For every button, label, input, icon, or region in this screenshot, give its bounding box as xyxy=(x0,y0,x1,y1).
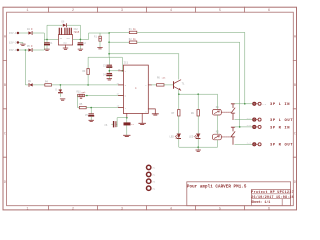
capacitor C7 xyxy=(124,122,135,126)
relay K2 switch xyxy=(231,127,235,144)
diode D5 xyxy=(27,45,33,52)
mounting hole H1 xyxy=(147,165,156,169)
resistor R6 xyxy=(157,77,167,87)
wire R OUT row xyxy=(235,143,253,145)
capacitor C2 xyxy=(78,40,86,49)
svg-text:B: B xyxy=(294,83,296,87)
frame row letters left xyxy=(4,35,6,185)
title block box xyxy=(187,182,291,206)
svg-text:2-3: 2-3 xyxy=(247,124,252,127)
ground IC right xyxy=(152,114,158,115)
ground regulator xyxy=(63,48,68,49)
svg-text:5: 5 xyxy=(219,206,221,210)
svg-text:15V-1: 15V-1 xyxy=(9,32,17,35)
resistor R2 xyxy=(129,38,137,44)
svg-text:D: D xyxy=(294,180,296,184)
pad 3P L OUT xyxy=(247,117,294,123)
wire relay column drop xyxy=(216,94,218,109)
wire R1 to right edge drop xyxy=(137,32,245,103)
LED LED3 xyxy=(189,134,200,139)
svg-text:50k: 50k xyxy=(82,91,87,94)
trimpot R11 xyxy=(77,91,87,99)
IC1 pin stubs left xyxy=(118,71,123,108)
frame column numbers bottom xyxy=(27,206,271,210)
LED LED2 xyxy=(170,134,181,139)
wire D5 to rectifier node xyxy=(33,39,45,50)
ground D10 xyxy=(60,99,65,100)
svg-text:4: 4 xyxy=(170,8,172,12)
svg-text:2-4: 2-4 xyxy=(247,142,252,145)
mounting hole H2 xyxy=(147,172,156,176)
wire regulator out to node xyxy=(73,39,82,41)
wire regulator gnd pin xyxy=(65,45,67,48)
fuse F1 xyxy=(94,33,101,47)
IC1 pin stubs bottom xyxy=(127,114,142,123)
wire row2 to R2 xyxy=(109,41,129,43)
relay K1 dashed link xyxy=(222,111,231,113)
ground IC bottom mid xyxy=(139,123,146,124)
wire IC right pin to gnd xyxy=(148,109,155,114)
wire AC sense drop xyxy=(25,50,28,85)
pad 3P R OUT xyxy=(247,142,294,148)
ground IC bottom left net xyxy=(124,135,130,136)
wire trimpot left down to R5 xyxy=(78,96,80,108)
svg-text:15V-3: 15V-3 xyxy=(9,49,17,52)
wire rail A down to Q1 collector xyxy=(178,54,180,79)
wire L OUT row xyxy=(235,119,253,121)
wire column2 drop xyxy=(197,94,199,109)
wire K1 to K2 xyxy=(216,115,218,134)
capacitor C5 xyxy=(85,108,93,120)
wire D4 to rectifier node xyxy=(33,33,45,39)
svg-text:6: 6 xyxy=(268,206,270,210)
pad 3P R IN xyxy=(247,124,291,130)
relay K1 switch xyxy=(231,104,235,120)
svg-text:3P R IN: 3P R IN xyxy=(270,126,290,130)
svg-text:A: A xyxy=(294,35,296,39)
frame row letters right xyxy=(294,35,296,185)
resistor R3 vertical xyxy=(83,69,90,85)
wire Q1 emitter to relay rail xyxy=(178,90,217,95)
wire R5 to IC pin4 xyxy=(86,107,123,109)
relay K1 coil xyxy=(213,106,222,115)
ground C5 xyxy=(89,120,94,121)
wire cap node to IC pin 1 xyxy=(109,70,124,72)
wire rail down row2 xyxy=(108,32,110,57)
wire IC bottom left down xyxy=(126,117,128,135)
resistor R1 xyxy=(129,28,137,34)
relay K2 coil xyxy=(213,131,222,140)
svg-text:3P L IN: 3P L IN xyxy=(270,103,290,107)
resistor R7 vertical xyxy=(172,110,181,117)
wire rail A horizontal xyxy=(108,53,179,55)
svg-text:D: D xyxy=(4,180,6,184)
pad X1-3 (AC input 2) xyxy=(9,49,19,52)
diode D4 xyxy=(27,28,33,35)
capacitor C1 xyxy=(45,40,53,49)
wire R2 to right edge drop xyxy=(137,42,240,127)
op IC1 uPC1237 box xyxy=(123,62,148,114)
svg-text:C: C xyxy=(294,132,296,136)
capacitor C6 xyxy=(105,122,116,127)
svg-text:6: 6 xyxy=(268,8,270,12)
svg-text:7815: 7815 xyxy=(73,31,79,34)
svg-text:IC1: IC1 xyxy=(124,62,129,65)
svg-text:Pour ampli CARVER PM1.5: Pour ampli CARVER PM1.5 xyxy=(187,185,247,190)
svg-text:15V-2: 15V-2 xyxy=(9,42,17,45)
svg-text:2: 2 xyxy=(72,8,74,12)
svg-text:10k: 10k xyxy=(162,77,167,80)
pad 3P L IN xyxy=(253,102,290,107)
frame row ticks left xyxy=(3,60,7,157)
transistor Q1 xyxy=(174,80,186,91)
wire L IN row xyxy=(235,103,253,105)
wire trimpot to IC pin3 xyxy=(85,95,124,97)
wire LED1 drop xyxy=(59,85,61,89)
pad X1-2 (AC center tap) xyxy=(9,41,19,44)
wire LED2 to bottom rail xyxy=(179,139,218,148)
ground C1 xyxy=(45,49,50,50)
ground CT xyxy=(21,44,26,45)
svg-text:2-1: 2-1 xyxy=(262,103,267,106)
wire R4 to detect line, junction xyxy=(52,84,124,86)
resistor R4 xyxy=(45,80,52,86)
svg-text:3: 3 xyxy=(121,8,123,12)
wire CT pad to ground xyxy=(19,43,23,44)
svg-text:C: C xyxy=(4,132,6,136)
wire cap branch down xyxy=(108,57,110,65)
svg-text:3: 3 xyxy=(121,206,123,210)
zener D10 xyxy=(56,88,63,96)
wire R7 to LED2 xyxy=(178,116,180,134)
ground C4 xyxy=(107,79,112,80)
svg-text:1: 1 xyxy=(27,8,29,12)
mounting hole H4 xyxy=(147,186,156,190)
ground C2 xyxy=(78,49,83,50)
ground bottom rail xyxy=(196,150,201,151)
node +15V rail junction xyxy=(108,32,110,34)
resistor R8 vertical xyxy=(191,110,199,117)
wire LED3 to bottom rail junction xyxy=(197,139,199,148)
ground F1 xyxy=(98,48,103,49)
svg-text:B: B xyxy=(4,83,6,87)
wire AC2 pad to D5 with junction xyxy=(19,49,28,51)
wire gnd stub bottom rail xyxy=(197,147,199,149)
capacitor C3 xyxy=(103,65,112,73)
wire D8 to R4 xyxy=(33,84,45,86)
wire AC1 pad to D4 xyxy=(19,32,28,34)
wire R6 to Q1 base xyxy=(164,84,174,86)
svg-text:LED: LED xyxy=(170,136,175,139)
svg-text:5: 5 xyxy=(219,8,221,12)
svg-text:LED: LED xyxy=(189,136,194,139)
wire output node up over to rail xyxy=(80,33,109,39)
wire rail B horizontal xyxy=(88,57,122,71)
voltage regulator IC2 7815 xyxy=(58,28,79,45)
frame column numbers top xyxy=(27,8,271,12)
wire branch to C6 xyxy=(112,118,127,127)
pad X1-1 (AC input 1) xyxy=(9,32,19,35)
svg-text:3P L OUT: 3P L OUT xyxy=(270,119,293,123)
svg-text:4: 4 xyxy=(170,206,172,210)
relay K2 dashed link xyxy=(222,136,231,138)
frame outer border xyxy=(3,7,297,210)
frame inner border xyxy=(7,12,294,206)
svg-text:2: 2 xyxy=(72,206,74,210)
diode D8 xyxy=(28,80,33,87)
capacitor C4 xyxy=(103,73,112,78)
frame column ticks top xyxy=(49,7,245,12)
mounting hole H3 xyxy=(147,179,156,183)
svg-text:1: 1 xyxy=(27,206,29,210)
svg-text:A: A xyxy=(4,35,6,39)
svg-text:2-2: 2-2 xyxy=(247,117,252,120)
wire column1 drop xyxy=(178,94,180,109)
wire R8 to LED3 xyxy=(197,116,199,134)
svg-text:Sheet: 1/1: Sheet: 1/1 xyxy=(251,200,270,204)
wire node up to D6 bypass xyxy=(47,25,62,39)
svg-text:3P R OUT: 3P R OUT xyxy=(270,144,293,148)
wire K2 to bottom rail xyxy=(216,140,218,147)
frame row ticks right xyxy=(293,60,296,157)
resistor R5 xyxy=(79,103,86,109)
IC1 pin stub right xyxy=(148,84,151,86)
wire rectifier node to regulator input xyxy=(44,39,58,41)
wire R IN row xyxy=(235,126,253,128)
svg-text:Protect HP UPC1237: Protect HP UPC1237 xyxy=(251,190,294,194)
wire rail row1 to R1 xyxy=(109,31,129,33)
wire D6 to output node xyxy=(67,25,81,39)
svg-text:26/10/2017 15:08:36: 26/10/2017 15:08:36 xyxy=(251,195,294,199)
diode D6 xyxy=(62,20,67,26)
frame column ticks bottom xyxy=(49,206,245,210)
wire IC pin right to R6 xyxy=(152,84,157,86)
